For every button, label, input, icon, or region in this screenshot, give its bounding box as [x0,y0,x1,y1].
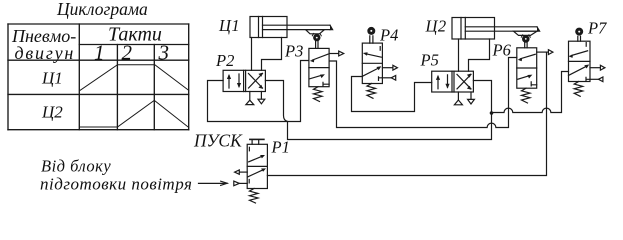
svg-text:Ц2: Ц2 [41,103,63,122]
svg-text:Р2: Р2 [215,51,234,70]
svg-text:двигун: двигун [15,43,76,63]
svg-text:Р7: Р7 [587,19,607,38]
svg-text:2: 2 [122,41,133,65]
svg-text:підготовки повітря: підготовки повітря [40,175,192,194]
svg-text:Ц2: Ц2 [425,17,447,36]
svg-text:Від блоку: Від блоку [41,157,111,176]
svg-text:Р4: Р4 [379,26,398,45]
svg-text:Р3: Р3 [284,42,303,61]
svg-text:Р5: Р5 [420,51,439,70]
svg-text:ПУСК: ПУСК [193,131,243,151]
svg-text:Ц1: Ц1 [41,69,63,88]
svg-text:Такти: Такти [108,24,162,46]
svg-text:Р6: Р6 [492,41,512,60]
svg-text:Циклограма: Циклограма [56,0,148,19]
svg-text:3: 3 [158,41,170,65]
svg-text:Ц1: Ц1 [218,16,240,35]
svg-text:Р1: Р1 [271,138,290,157]
svg-text:1: 1 [94,41,105,65]
